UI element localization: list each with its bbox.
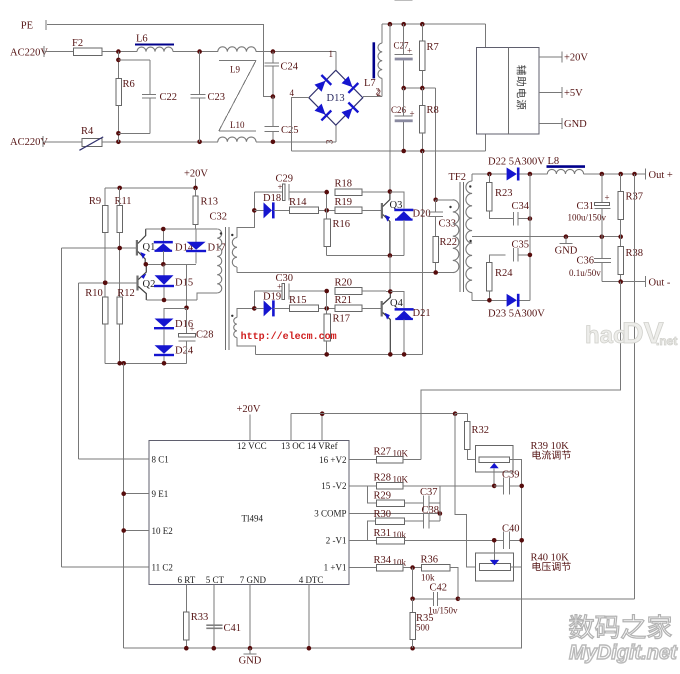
svg-text:8 C1: 8 C1 (152, 454, 169, 464)
IC U1 TL494 body (149, 440, 349, 584)
capacitor C22 (118, 59, 149, 61)
svg-text:Q2: Q2 (143, 279, 156, 290)
svg-text:R4: R4 (81, 126, 94, 137)
svg-text:10k: 10k (421, 573, 435, 583)
wire +20V rail (105, 187, 195, 189)
svg-text:+20V: +20V (236, 404, 260, 415)
svg-text:L6: L6 (136, 34, 148, 45)
svg-text:C34: C34 (512, 201, 530, 212)
svg-text:D24: D24 (175, 346, 194, 357)
bridge diode bottom-right (340, 102, 359, 121)
wire R40 right (511, 566, 522, 568)
svg-text:3: 3 (325, 139, 335, 144)
wire Out+ sense down (634, 174, 636, 599)
svg-text:+: + (190, 324, 195, 334)
wire driver ground rail (105, 362, 186, 364)
wire secondary top row (472, 173, 507, 175)
wire bridge pin4 to B- bus (291, 98, 308, 151)
svg-text:MyDigit.net: MyDigit.net (569, 642, 678, 664)
svg-text:5 CT: 5 CT (206, 575, 225, 585)
wire C30 bracket (253, 291, 255, 308)
svg-text:C36: C36 (577, 256, 595, 267)
transformer TF2 core (459, 182, 461, 292)
svg-text:D15: D15 (175, 278, 193, 289)
wire Q2 collector row (146, 299, 197, 301)
svg-text:R10: R10 (85, 288, 103, 299)
resistor R6 (117, 52, 119, 79)
svg-text:PE: PE (21, 21, 33, 32)
wire R39 to bus (509, 460, 521, 567)
svg-text:F2: F2 (72, 38, 83, 49)
svg-text:D23 5A300V: D23 5A300V (488, 309, 545, 320)
svg-text:1 +V1: 1 +V1 (324, 563, 347, 573)
svg-text:L10: L10 (230, 120, 245, 130)
svg-text:Q1: Q1 (143, 242, 156, 253)
svg-text:Out -: Out - (649, 278, 671, 289)
wire switch node row (237, 272, 453, 274)
wire Q1 base to TL494 pin11 (60, 248, 62, 567)
svg-text:R23: R23 (495, 188, 513, 199)
svg-text:R21: R21 (335, 295, 353, 306)
svg-text:C23: C23 (208, 92, 226, 103)
svg-text:Out +: Out + (649, 170, 673, 181)
svg-text:14 VRef: 14 VRef (307, 441, 338, 451)
node Out- terminal (645, 276, 647, 287)
svg-text:C40: C40 (502, 524, 520, 535)
capacitor C25 (264, 125, 279, 127)
capacitor C23 (191, 93, 206, 95)
svg-text:C32: C32 (210, 212, 228, 223)
wire bridge pin2 to L7 (363, 96, 382, 98)
wire bus to ground (521, 567, 523, 648)
wire L8 to Out+ (584, 173, 646, 175)
common-mode choke core (219, 60, 256, 62)
svg-text:L9: L9 (230, 65, 240, 75)
wire emitter row (145, 263, 196, 265)
svg-text:9 E1: 9 E1 (152, 489, 169, 499)
svg-text:R13: R13 (201, 197, 219, 208)
watermark shumazhijia (569, 615, 593, 639)
svg-text:C25: C25 (281, 125, 299, 136)
svg-text:Q4: Q4 (390, 298, 404, 309)
svg-text:R28: R28 (374, 473, 392, 484)
svg-text:R15: R15 (289, 295, 307, 306)
svg-text:.net: .net (656, 334, 677, 348)
svg-text:R16: R16 (333, 219, 351, 230)
transformer C32 lower secondary (231, 315, 233, 317)
svg-text:16 +V2: 16 +V2 (319, 455, 346, 465)
node Out+ terminal (645, 169, 647, 180)
svg-text:GND: GND (564, 119, 587, 130)
transformer C32 upper secondary (231, 234, 233, 236)
wire node B2 vertical (326, 291, 328, 314)
inductor L10 choke bottom winding (218, 137, 256, 142)
svg-text:+20V: +20V (184, 169, 208, 180)
transformer C32 primary (217, 229, 222, 293)
wire emitter row to C28 (186, 264, 188, 308)
svg-text:500: 500 (416, 623, 430, 633)
wire R4 to choke bottom (102, 141, 218, 143)
svg-text:+: + (410, 109, 415, 119)
svg-text:R27: R27 (374, 446, 392, 457)
svg-text:D22 5A300V: D22 5A300V (488, 157, 545, 168)
wire VRef line (291, 413, 455, 415)
bridge diode top-left (313, 74, 332, 93)
wire AC top to fuse (45, 51, 74, 53)
bridge rectifier D13 outline (309, 70, 363, 125)
node GND aux output (539, 123, 562, 125)
svg-text:Tl494: Tl494 (242, 514, 264, 524)
svg-text:15 -V2: 15 -V2 (321, 481, 346, 491)
auxiliary supply block (477, 48, 539, 134)
transformer TF2 secondary (469, 185, 471, 187)
svg-text:13 OC: 13 OC (281, 441, 305, 451)
wire midpoint to TF2 primary (435, 88, 437, 200)
svg-text:C42: C42 (430, 583, 448, 594)
svg-text:D17: D17 (208, 243, 226, 254)
svg-text:C24: C24 (281, 62, 299, 73)
wire VRef to R40 (455, 414, 480, 567)
wire C37 to COMP node (429, 502, 440, 504)
ground GND bottom (249, 648, 251, 654)
svg-text:C35: C35 (512, 240, 530, 251)
wire B- to Q4 emitter return (421, 151, 423, 354)
wire centre tap GND row (489, 236, 620, 238)
wire B+ feed to Q3 collector (389, 24, 391, 191)
svg-text:TF2: TF2 (449, 172, 467, 183)
wire B- bus (291, 150, 485, 152)
bridge diode bottom-left (313, 102, 332, 121)
svg-text:C41: C41 (224, 623, 242, 634)
bridge diode top-right (340, 75, 359, 94)
svg-text:R17: R17 (333, 314, 351, 325)
svg-text:D21: D21 (413, 308, 431, 319)
node +5V aux output (539, 92, 562, 94)
wire Q3 emitter row (327, 255, 404, 257)
svg-text:R33: R33 (191, 612, 209, 623)
svg-text:1: 1 (329, 49, 334, 59)
wire Out- feedback down (421, 282, 621, 460)
wire GND rail (124, 647, 522, 649)
svg-text:6 RT: 6 RT (178, 575, 196, 585)
svg-text:R32: R32 (472, 425, 490, 436)
wire L6 to choke (173, 51, 218, 53)
svg-text:http://elecm.com: http://elecm.com (241, 331, 337, 343)
inductor L9 choke top winding (218, 47, 256, 52)
svg-text:12 VCC: 12 VCC (237, 441, 267, 451)
svg-text:R22: R22 (440, 237, 458, 248)
wire R9-R10 node to Q2 base (103, 281, 108, 286)
svg-text:GND: GND (555, 246, 578, 257)
wire PE (47, 24, 273, 96)
wire rectified node vertical (529, 174, 531, 300)
wire choke to bridge pin1 (256, 51, 336, 53)
svg-text:D19: D19 (263, 292, 281, 303)
svg-text:100u/150v: 100u/150v (568, 213, 607, 223)
svg-text:R8: R8 (427, 105, 439, 116)
svg-text:GND: GND (239, 656, 262, 667)
capacitor C24 (272, 52, 274, 64)
svg-text:R9: R9 (89, 196, 101, 207)
wire fuse to L6 (102, 51, 137, 53)
wire B+ bus (382, 23, 485, 25)
wire switch node vertical (389, 256, 391, 292)
svg-text:2 -V1: 2 -V1 (326, 535, 347, 545)
ground GND output (565, 237, 567, 244)
wire AC bottom to R4 (44, 141, 82, 143)
svg-text:7 GND: 7 GND (240, 575, 267, 585)
svg-text:4: 4 (290, 88, 295, 98)
svg-text:R36: R36 (421, 555, 439, 566)
svg-text:D13: D13 (327, 93, 345, 104)
svg-text:R18: R18 (335, 179, 353, 190)
wire cap midpoint row (404, 87, 436, 89)
svg-text:R20: R20 (335, 278, 353, 289)
svg-text:D20: D20 (413, 209, 431, 220)
svg-text:2: 2 (376, 87, 381, 97)
wire node B vertical (326, 192, 328, 219)
svg-text:0.1u/50v: 0.1u/50v (569, 268, 601, 278)
transformer C32 core (224, 227, 226, 350)
svg-text:R24: R24 (495, 268, 513, 279)
svg-text:4 DTC: 4 DTC (299, 575, 324, 585)
transformer TF2 primary (436, 199, 453, 201)
svg-text:+: + (277, 282, 282, 292)
svg-text:+5V: +5V (564, 88, 583, 99)
svg-text:3 COMP: 3 COMP (314, 509, 346, 519)
svg-text:+: + (605, 193, 610, 203)
wire D22 to L8 (520, 173, 548, 175)
wire Q1 collector rail (146, 228, 218, 230)
svg-text:C28: C28 (196, 330, 214, 341)
svg-text:C31: C31 (577, 201, 595, 212)
svg-text:R6: R6 (123, 79, 135, 90)
wire secondary centre tap (472, 236, 489, 238)
svg-text:AC220V: AC220V (10, 48, 48, 59)
svg-text:C22: C22 (160, 92, 178, 103)
wire secondary bottom row (472, 299, 507, 301)
diode D23 (507, 294, 517, 307)
svg-text:D18: D18 (263, 193, 281, 204)
wire lower return row (255, 353, 422, 355)
node +20V aux output (539, 56, 562, 58)
svg-text:L7: L7 (364, 78, 376, 89)
diode D22 (507, 168, 517, 181)
capacitor C33 (433, 198, 438, 203)
wire choke to bridge pin3 (256, 141, 336, 143)
svg-text:10 E2: 10 E2 (152, 526, 173, 536)
wire Q2 base to TL494 pin8 (77, 283, 79, 459)
wire sense row (458, 598, 635, 600)
wire Out- row (602, 281, 646, 283)
svg-text:R7: R7 (427, 42, 439, 53)
wire rail to TL494 emitters (123, 363, 125, 648)
svg-text:C39: C39 (502, 470, 520, 481)
svg-text:R14: R14 (289, 197, 307, 208)
svg-text:+20V: +20V (564, 53, 588, 64)
svg-text:R19: R19 (335, 197, 353, 208)
svg-text:11 C2: 11 C2 (152, 562, 173, 572)
